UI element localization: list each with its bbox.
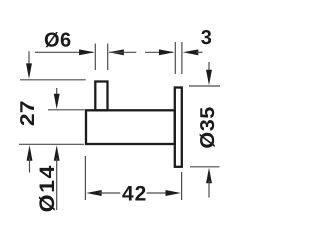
dimension 27 : pin-top extension line: [20, 79, 86, 81]
dimension Ø35 : plate-bottom extension line: [190, 166, 220, 168]
dimension 3 : right arrowhead pointing left: [183, 49, 199, 55]
dimension Ø6 : right leader line: [109, 51, 136, 53]
svg-text:27: 27: [17, 101, 39, 127]
dimension Ø35 : bottom arrowhead pointing up: [206, 168, 212, 184]
svg-text:3: 3: [201, 27, 212, 49]
dimension Ø6 : left arrowhead pointing right: [79, 49, 95, 55]
dimension 3 : left leader line: [145, 51, 173, 53]
dimension Ø35 : top arrowhead pointing down: [206, 70, 212, 86]
dimension 27 : top arrowhead pointing down: [26, 63, 32, 79]
dimension Ø35 : bottom leader line: [208, 181, 210, 198]
dimension 42 : left dim line: [99, 192, 120, 194]
hook pin (Ø6 peg, side view): [95, 82, 107, 111]
dimension Ø14 : top leader line: [56, 88, 58, 97]
svg-text:Ø6: Ø6: [44, 30, 72, 52]
svg-text:Ø35: Ø35: [197, 106, 219, 148]
dimension 27 : top leader line: [28, 51, 30, 66]
hook body (cylinder, side view): [86, 110, 175, 144]
wall plate (Ø35 rosette, side view, 3 thick): [175, 88, 182, 167]
dimension 27 : bottom arrowhead pointing up: [27, 145, 33, 161]
dimension 42 : right dim line: [147, 192, 168, 194]
svg-text:42: 42: [122, 182, 147, 205]
dimension Ø14 : bottom leader line: [56, 158, 58, 210]
dimension 3 : right leader line: [196, 51, 203, 53]
dimension 42 : left arrowhead pointing left: [86, 190, 102, 196]
dimension 42 : left extension line: [84, 156, 86, 200]
dimension 42 : right arrowhead pointing right: [166, 190, 182, 196]
dimension 42 : right extension line: [181, 172, 183, 200]
dimension Ø35 : top leader line: [208, 62, 210, 73]
dimension 3 : right extension line: [181, 42, 183, 74]
svg-text:Ø14: Ø14: [36, 164, 59, 212]
dimension Ø14 : body-top extension line: [48, 109, 85, 111]
dimension Ø6 : left extension line: [94, 44, 96, 71]
dimension Ø35 : plate-top extension line: [189, 85, 220, 87]
dimension Ø6 : left leader line: [35, 51, 93, 53]
dimension 3 : left arrowhead pointing right: [159, 49, 175, 55]
dimension Ø6 : right extension line: [107, 44, 109, 71]
dimension 3 : left extension line: [174, 42, 176, 74]
dimension 27 : bottom leader line: [29, 158, 31, 173]
dimension Ø6 : right arrowhead pointing left: [108, 49, 124, 55]
dimension 27 / Ø14 : body-bottom extension line: [19, 143, 84, 145]
dimension Ø14 : top arrowhead pointing down: [54, 94, 60, 110]
dimension Ø14 : bottom arrowhead pointing up: [54, 145, 60, 161]
